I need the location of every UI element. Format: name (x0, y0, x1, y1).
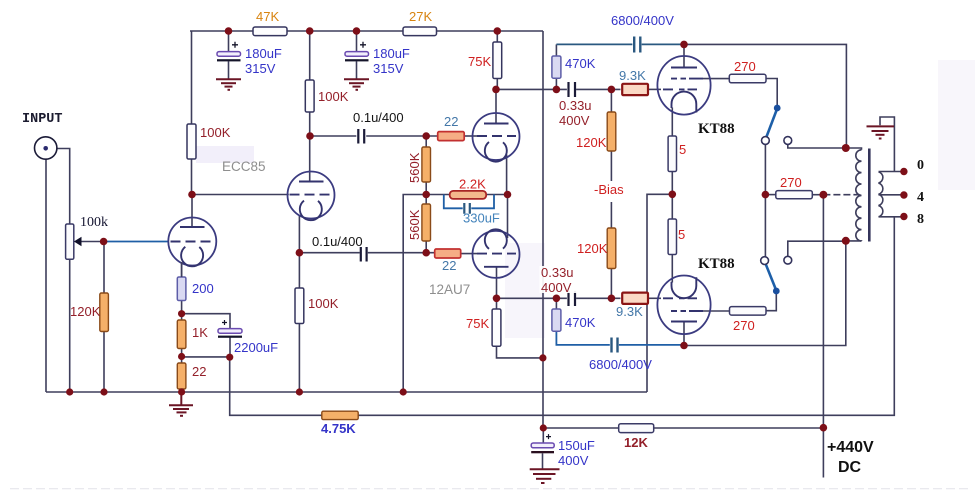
T6 screen grid g2 (671, 310, 703, 312)
node KT88 lower anode (680, 342, 688, 350)
resistor 470K lower (552, 309, 561, 331)
wire 560K mid node to ground (403, 195, 426, 393)
wire B+ vertical to +440V (822, 195, 824, 478)
wire switch common bus (764, 144, 766, 256)
T4 grid (477, 253, 516, 255)
potentiometer wiper arrow (74, 237, 82, 246)
node sec tap 8 (900, 213, 907, 220)
wire T1 grid (blue) (104, 241, 169, 243)
resistor 270 lower (730, 307, 767, 316)
svg-text:1K: 1K (192, 325, 208, 340)
capacitor 6800/400V upper (634, 37, 640, 53)
wire 2200uF top link (182, 314, 230, 329)
svg-text:8: 8 (917, 212, 924, 227)
T1 cathode (181, 247, 203, 267)
resistor 100K (phase splitter plate) (305, 80, 314, 112)
wire 6800/400V upper line (blue) (556, 43, 632, 45)
svg-text:DC: DC (838, 459, 862, 476)
wire 6800/400V lower line (blue) (619, 344, 684, 346)
background tint patch left (196, 146, 254, 163)
svg-text:22: 22 (442, 258, 456, 273)
svg-text:200: 200 (192, 281, 214, 296)
wire 0.33u upper line (496, 88, 567, 90)
T3 cathode (485, 142, 507, 162)
svg-text:0.33u: 0.33u (559, 98, 592, 113)
resistor 5 upper (668, 136, 676, 172)
switch upper right contact (784, 137, 792, 145)
T6 control grid g1 (663, 297, 697, 299)
T5 anode (671, 67, 697, 69)
svg-text:100K: 100K (200, 125, 231, 140)
svg-text:2200uF: 2200uF (234, 340, 278, 355)
node primary top (842, 144, 850, 152)
T2 cathode (300, 201, 322, 221)
wire 5-ohm chain (671, 172, 673, 220)
T1 cathode stem (181, 262, 183, 277)
svg-text:ECC85: ECC85 (222, 159, 266, 174)
bottom edge artifact line (10, 488, 970, 490)
node cathode pair (504, 191, 512, 199)
svg-text:KT88: KT88 (698, 256, 735, 272)
svg-text:100k: 100k (80, 215, 108, 230)
switch upper pole dot (774, 105, 781, 112)
T2 grid (290, 194, 334, 196)
T5 cathode (672, 92, 697, 113)
ground (150uF) (530, 469, 560, 483)
ground (180uF-2) (344, 79, 369, 90)
wire primary top lead (846, 148, 862, 150)
wire 470K lower stems (555, 298, 557, 309)
svg-text:5: 5 (678, 227, 685, 242)
node B+ 440V (820, 424, 828, 432)
node 150uF (540, 424, 547, 431)
resistor 22 (upper coupling) (438, 132, 465, 141)
node ground 100K-3 (296, 388, 303, 395)
transformer ground link (880, 117, 894, 172)
T3 anode (484, 123, 509, 125)
svg-text:12K: 12K (624, 435, 648, 450)
wire T2 cathode drop (298, 216, 300, 289)
wire top B+ rail (190, 30, 543, 32)
node 0.1u/560K lower (422, 249, 430, 257)
svg-text:470K: 470K (565, 315, 596, 330)
wire upper anode line to primary top (684, 44, 846, 148)
background tint patch mid (505, 243, 545, 338)
resistor 120K lower (bias) (607, 228, 616, 269)
wire 270 lower to switch pole (766, 294, 776, 311)
T4 cathode (485, 229, 507, 249)
tube T2 ECC85 triode B envelope (288, 172, 335, 219)
wire T3 grid lead (464, 135, 477, 137)
wire T3 anode stem (495, 89, 497, 123)
tube T3 12AU7 upper envelope (473, 113, 520, 160)
T6 anode (671, 321, 697, 323)
wire B+ vertical drop x=543 (542, 31, 544, 428)
capacitor 0.33u/400V lower (569, 291, 576, 306)
node KT88 upper anode (680, 41, 688, 49)
T5 screen grid g2 (671, 78, 703, 80)
tube T4 12AU7 lower envelope (473, 231, 520, 278)
node T3 anode (492, 86, 500, 94)
wire T2 grid from T1 anode (192, 194, 289, 196)
resistor 9.3K lower (622, 293, 648, 304)
node ground cathode (178, 388, 185, 395)
capacitor 330uF (464, 203, 470, 214)
wire input jack to pot (57, 149, 70, 225)
node T1 anode (188, 191, 196, 199)
svg-text:4: 4 (917, 190, 924, 205)
wire primary centre tap (823, 194, 859, 196)
input jack (35, 137, 57, 159)
svg-text:270: 270 (733, 318, 755, 333)
wire B+ bottom rail to +440V (543, 427, 823, 429)
svg-text:400V: 400V (541, 280, 572, 295)
node 560K mid (422, 191, 430, 199)
wire 470K upper stems (555, 44, 557, 56)
resistor 22 (cathode) (177, 363, 186, 389)
capacitor 0.1u/400 lower (361, 247, 367, 262)
wire 180uF-2 stems (356, 31, 358, 52)
svg-text:-Bias: -Bias (594, 182, 624, 197)
tube T6 KT88 lower envelope (657, 276, 710, 335)
tube T1 ECC85 triode A envelope (168, 218, 216, 266)
transformer core (868, 149, 871, 242)
wire 9.3K lower to KT88 g1 (649, 297, 662, 299)
node 2200uF bottom (226, 354, 233, 361)
svg-text:560K: 560K (407, 152, 422, 183)
T6 cathode (672, 277, 697, 298)
wire T5 cathode tail (671, 108, 673, 137)
svg-text:100K: 100K (308, 296, 339, 311)
switch lower left contact (761, 257, 769, 265)
resistor 2.2K (450, 191, 487, 199)
wire 0.33u lower line (497, 297, 567, 299)
svg-text:22: 22 (444, 114, 458, 129)
svg-text:100K: 100K (318, 89, 349, 104)
ground (180uF-1) (216, 79, 241, 90)
node rail/75K (494, 27, 502, 35)
wire 2200uF bottom link (182, 356, 230, 358)
wire cathodyne 100K to ground (298, 324, 300, 393)
svg-text:2.2K: 2.2K (459, 177, 486, 192)
svg-text:4.75K: 4.75K (321, 421, 356, 436)
node ground pot (66, 388, 73, 395)
capacitor 0.1u/400 upper (358, 129, 364, 144)
wire T1 anode stem (191, 195, 193, 228)
svg-text:120K: 120K (577, 241, 608, 256)
svg-text:315V: 315V (245, 61, 276, 76)
resistor 270 upper (729, 74, 766, 83)
svg-text:47K: 47K (256, 9, 279, 24)
node switch bus/270 (762, 191, 770, 199)
resistor 470K upper (552, 56, 561, 78)
T3 grid (477, 135, 516, 137)
node sec tap 4 (900, 191, 907, 198)
resistor 12K (619, 424, 654, 433)
label 0.33u lower backing (540, 266, 579, 293)
svg-text:0.1u/400: 0.1u/400 (312, 234, 363, 249)
resistor 100K (input stage plate) (187, 124, 196, 159)
resistor 100K (phase splitter cathode) (295, 288, 304, 324)
resistor 75K lower (492, 309, 501, 346)
resistor 560K upper (422, 147, 431, 182)
node rail/180uF-1 (225, 27, 233, 35)
wire 330uF loop (blue) (444, 195, 463, 209)
svg-text:5: 5 (679, 142, 686, 157)
node T4 anode (493, 295, 501, 303)
node 1K/22 (178, 353, 185, 360)
node pot wiper (100, 238, 108, 246)
switch lower lever (766, 264, 777, 291)
resistor 560K lower (422, 204, 431, 241)
T1 anode (180, 226, 205, 228)
wire lower switch right contact to primary bottom (788, 241, 846, 256)
svg-text:6800/400V: 6800/400V (611, 13, 674, 28)
node ground 560K (400, 388, 407, 395)
svg-text:560K: 560K (407, 209, 422, 240)
capacitor 2200uF (218, 320, 242, 338)
node centre tap B+ (819, 191, 827, 199)
wire T6 cathode tail (671, 255, 673, 283)
switch lower right contact (784, 256, 792, 264)
ground (main rail) (169, 405, 193, 416)
resistor 4.75K (322, 411, 358, 419)
wire primary bottom lead (846, 240, 862, 242)
wire upper switch right contact to primary top (788, 144, 846, 148)
svg-text:27K: 27K (409, 9, 432, 24)
svg-text:270: 270 (780, 175, 802, 190)
wire 180uF-1 stems (228, 31, 230, 52)
wire pot wiper to node (81, 241, 104, 243)
wire T3 cathode stem (506, 155, 508, 195)
svg-text:0.33u: 0.33u (541, 265, 574, 280)
svg-text:315V: 315V (373, 61, 404, 76)
svg-text:6800/400V: 6800/400V (589, 357, 652, 372)
svg-text:0: 0 (917, 158, 924, 173)
T1 grid (171, 241, 215, 243)
node T2 anode junction (306, 132, 314, 140)
capacitor 150uF/400V (531, 434, 554, 453)
wire 150uF stems (542, 428, 544, 443)
capacitor 180uF/315V no.2 (345, 42, 369, 62)
resistor 9.3K upper (622, 84, 648, 95)
wire 2.2K left/right leads (426, 194, 449, 196)
wire 0.1u/400 lower coupling line (299, 252, 359, 254)
switch upper left contact (762, 137, 770, 145)
node primary bottom (842, 237, 850, 245)
wire T4 cathode stem (507, 195, 509, 239)
svg-text:120K: 120K (576, 135, 607, 150)
svg-text:180uF: 180uF (373, 46, 410, 61)
svg-text:9.3K: 9.3K (619, 68, 646, 83)
svg-text:INPUT: INPUT (22, 112, 63, 127)
svg-text:+440V: +440V (827, 439, 874, 456)
wire T1 cathode chain (181, 264, 183, 321)
ground (transformer) (867, 126, 895, 138)
resistor 75K upper (493, 42, 502, 79)
capacitor 6800/400V lower (612, 338, 618, 353)
wire T4 anode stem (496, 267, 498, 299)
svg-text:KT88: KT88 (698, 121, 735, 137)
wire 75K lower stems (496, 298, 498, 309)
wire 100K plate-2 feed (309, 31, 311, 80)
wire lower anode line to primary bottom (684, 241, 846, 346)
resistor 200 (177, 277, 186, 301)
wire ground rail (46, 391, 647, 393)
wire T6 g2 to 270 (703, 310, 730, 312)
node 9.3K/120K upper (608, 86, 616, 94)
resistor 27K (403, 27, 437, 36)
node 0.1u/560K upper (422, 132, 430, 140)
svg-text:0.1u/400: 0.1u/400 (353, 110, 404, 125)
wire 5-ohm mid to ground rail (647, 194, 672, 392)
node 470K upper bottom (553, 86, 561, 94)
wire jack shield drop (45, 159, 47, 392)
node ground 120K (100, 388, 107, 395)
wire 270 upper to switch pole (766, 79, 777, 106)
wire 270 mid leads (765, 194, 775, 196)
capacitor 180uF/315V no.1 (217, 42, 241, 62)
node 470K lower top (553, 295, 561, 303)
resistor 120K (input grid leak) (100, 293, 109, 332)
svg-text:400V: 400V (558, 453, 589, 468)
svg-text:470K: 470K (565, 56, 596, 71)
T5 control grid g1 (663, 88, 697, 90)
resistor 22 (lower coupling) (435, 249, 461, 258)
switch upper (UL/triode) lever (766, 109, 777, 138)
node 75K lower/B+ (539, 354, 546, 361)
background tint patch right (938, 60, 975, 190)
wire feedback from 2200uF node (230, 217, 895, 416)
svg-text:150uF: 150uF (558, 438, 595, 453)
transformer secondary winding (879, 172, 883, 217)
wire T6 anode stem (683, 322, 685, 346)
node rail/100K-2 (306, 27, 314, 35)
wire pot bottom to ground rail (69, 259, 71, 392)
svg-text:12AU7: 12AU7 (429, 282, 470, 297)
wire T5 anode stem (683, 44, 685, 67)
wire 0.1u/400 upper coupling line (310, 135, 356, 137)
capacitor 0.33u/400V upper (569, 82, 576, 97)
resistor 5 lower (668, 219, 676, 255)
wire 75K upper stems (496, 31, 498, 42)
node 200/1K (178, 310, 185, 317)
wire 560K upper stems (425, 136, 427, 147)
resistor 47K (253, 27, 287, 36)
svg-text:180uF: 180uF (245, 46, 282, 61)
node T2 cathode junction (296, 249, 304, 257)
wire node to 120K top / bottom (103, 242, 105, 294)
wire 560K lower stem to 0.1u line (425, 241, 427, 253)
wire left plate-feed drop x=191.5 (191, 31, 193, 195)
wire 9.3K upper to KT88 g1 (649, 88, 662, 90)
resistor 270 middle (776, 191, 813, 199)
switch lower pole dot (773, 288, 780, 295)
transformer primary winding (856, 150, 862, 241)
node 9.3K/120K lower (608, 295, 616, 303)
svg-text:120K: 120K (70, 304, 101, 319)
resistor 1K (177, 320, 186, 349)
svg-text:75K: 75K (468, 54, 491, 69)
svg-text:400V: 400V (559, 113, 590, 128)
svg-text:270: 270 (734, 59, 756, 74)
resistor 120K upper (bias) (607, 112, 616, 151)
secondary tap wires (879, 171, 904, 173)
potentiometer 100k body (66, 224, 74, 259)
T4 anode (484, 266, 509, 268)
svg-text:22: 22 (192, 364, 206, 379)
node 5-ohm mid (669, 191, 677, 199)
svg-text:75K: 75K (466, 316, 489, 331)
wire 120K bias chain (610, 89, 612, 112)
wire T5 g2 to 270 (703, 78, 729, 80)
T2 anode (299, 181, 324, 183)
svg-text:9.3K: 9.3K (616, 304, 643, 319)
node rail/180uF-2 (353, 27, 361, 35)
svg-text:330uF: 330uF (463, 211, 500, 226)
node sec tap 0 (900, 168, 907, 175)
tube T5 KT88 upper envelope (657, 56, 710, 115)
wire T4 grid lead (461, 253, 478, 255)
